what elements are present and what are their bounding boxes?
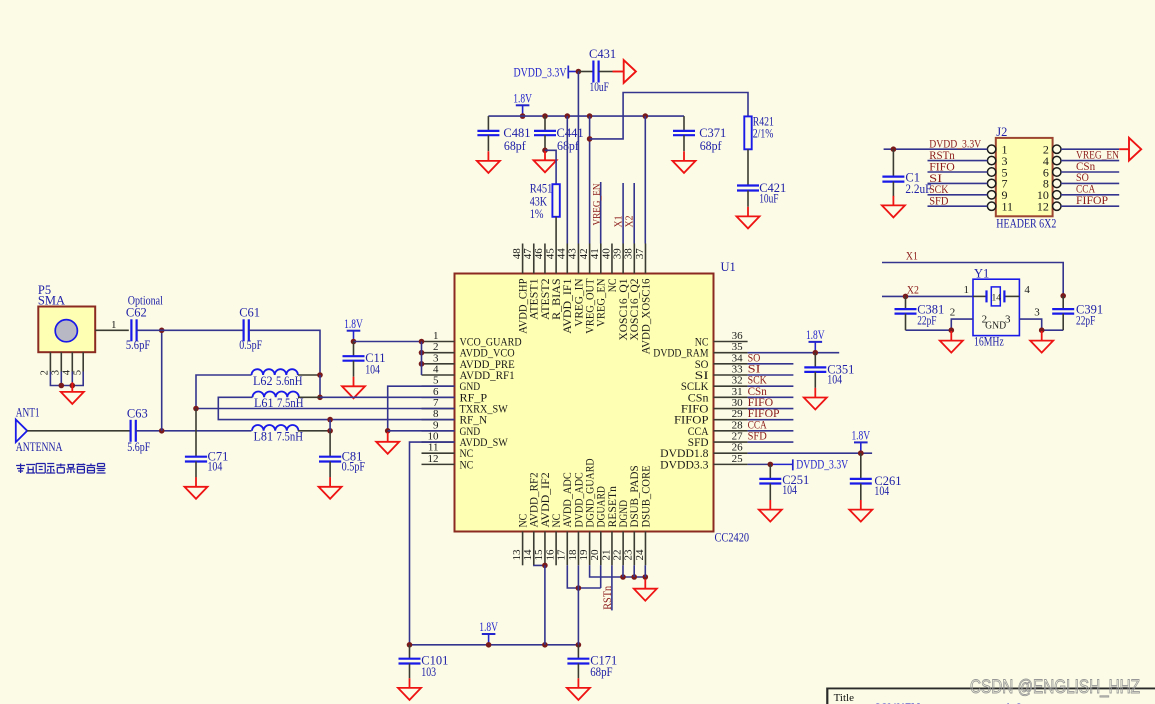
- net label SI: [748, 362, 761, 376]
- net label CSn: [748, 384, 767, 398]
- node Y1 pin3 gnd: [1039, 327, 1045, 333]
- net label RSTn (vertical): [602, 586, 614, 610]
- net label SO (J2 right): [1076, 170, 1089, 184]
- wire C441 node to R451: [545, 150, 556, 184]
- node C1: [891, 146, 897, 152]
- svg-text:FIFOP: FIFOP: [1076, 193, 1108, 207]
- pin 1 (J2): [928, 143, 1008, 157]
- wire net SO (pin 34): [748, 363, 794, 365]
- node DVDD_3.3V junction: [576, 69, 582, 75]
- wire pin21 RSTn: [611, 565, 613, 610]
- net label X1 (vertical): [614, 216, 625, 228]
- wire net FIFOP (pin 29): [748, 419, 794, 421]
- svg-text:C481: C481: [503, 126, 530, 140]
- pin 2 AVDD_VCO (left): [422, 341, 515, 360]
- pin 7 TXRX_SW (left): [422, 397, 509, 416]
- pin 17 AVDD_ADC (bottom): [556, 472, 575, 565]
- pin 3 (P5): [51, 352, 62, 375]
- node pin2: [419, 350, 425, 356]
- pin 34 SO (right): [695, 352, 748, 371]
- watermark CSDN @ENGLISH_HHZ: [970, 677, 1140, 698]
- wire pin38 net X2: [633, 183, 635, 244]
- node X2-C381: [903, 294, 909, 300]
- pin 23 DSUB_PADS (bottom): [623, 465, 642, 565]
- pin 4 (P5): [62, 352, 73, 375]
- node pin23 dgnd: [631, 574, 637, 580]
- svg-text:Y1: Y1: [974, 267, 989, 281]
- wire pin14 tie: [534, 564, 545, 566]
- svg-text:4: 4: [62, 369, 73, 375]
- wire pin20 drop: [600, 565, 602, 588]
- svg-text:HEADER 6X2: HEADER 6X2: [996, 217, 1056, 231]
- svg-text:1.8V: 1.8V: [851, 429, 870, 443]
- capacitor C63 5.6pF: [127, 407, 150, 454]
- node rail-pin42: [587, 113, 593, 119]
- wire AVDD_SW run (pin10): [410, 442, 455, 645]
- svg-text:X1: X1: [614, 216, 625, 228]
- pin 27 SFD (right): [688, 431, 748, 450]
- wire L81 right: [298, 430, 330, 432]
- wire VREG_OUT to R421 feed: [590, 93, 748, 139]
- pin 2 (P5): [40, 352, 51, 375]
- svg-text:0.5pF: 0.5pF: [342, 460, 366, 474]
- svg-text:CSDN @ENGLISH_HHZ: CSDN @ENGLISH_HHZ: [970, 677, 1140, 698]
- svg-text:VREG_EN: VREG_EN: [591, 183, 603, 225]
- svg-text:1: 1: [964, 284, 970, 296]
- wire L62 right: [298, 374, 320, 376]
- pin 37 AVDD_XOSC16 (top): [634, 244, 653, 355]
- svg-text:24: 24: [634, 549, 646, 561]
- net label FIFO: [748, 395, 774, 409]
- resistor R421 2/1%: [744, 115, 774, 150]
- power symbol 1.8V (DVDD_RAM): [806, 328, 825, 355]
- wire pin37 to rail: [644, 116, 646, 243]
- wire DVDD_3.3V to C1: [884, 148, 928, 150]
- wire net X1: [882, 263, 1063, 296]
- svg-text:CC2420: CC2420: [715, 531, 750, 545]
- pin 24 DSUB_CORE (bottom): [634, 465, 653, 565]
- pin 38 XOSC16_Q2 (top): [623, 244, 642, 341]
- wire net CSn (pin 31): [748, 396, 794, 398]
- node pin25 C251: [768, 462, 774, 468]
- node VREG_OUT tap: [587, 136, 593, 142]
- net label SO: [748, 350, 761, 364]
- node P5 gnd a: [59, 383, 65, 389]
- svg-text:SFD: SFD: [748, 429, 767, 443]
- pin 35 DVDD_RAM (right): [653, 341, 747, 360]
- wire net FIFO (pin 30): [748, 408, 794, 410]
- pin 9 (J2): [928, 188, 1008, 202]
- wire TXRX_SW to pin7: [196, 408, 455, 410]
- pin 5 GND (left): [422, 375, 481, 394]
- ground (C11): [342, 377, 365, 399]
- svg-text:10uF: 10uF: [759, 192, 778, 206]
- node X1-C391: [1060, 293, 1066, 299]
- capacitor C251 104: [759, 464, 809, 500]
- net label SCK: [748, 373, 767, 387]
- svg-text:C62: C62: [126, 305, 147, 319]
- node C441-gnd-R451: [542, 148, 548, 154]
- ground (digital pins 22-24): [634, 579, 657, 601]
- net label FIFOP: [748, 406, 780, 420]
- node GND pin9: [385, 428, 391, 434]
- pin 10 (J2): [1037, 188, 1119, 202]
- inductor L81 7.5nH: [252, 425, 303, 444]
- power arrow (VREG_EN): [1119, 138, 1141, 161]
- node RF_P junction: [317, 395, 323, 401]
- pin 12 (J2): [1037, 200, 1119, 214]
- svg-text:5: 5: [73, 370, 84, 375]
- node RF_N junction: [327, 417, 333, 423]
- pin 7 (J2): [928, 177, 1008, 191]
- ground (C171): [567, 678, 590, 700]
- node pin17-18: [576, 585, 582, 591]
- pin 19 DGND_GUARD (bottom): [578, 459, 597, 566]
- svg-text:ANT1: ANT1: [16, 406, 40, 420]
- pin 11 NC (left): [422, 442, 474, 461]
- pin 26 DVDD1.8 (right): [660, 442, 747, 461]
- pin 4 AVDD_RF1 (left): [422, 364, 515, 383]
- wire RF_P to pin6: [320, 396, 455, 398]
- node rail-C171: [576, 642, 582, 648]
- wire pin23 drop: [633, 565, 635, 577]
- pin 29 FIFOP (right): [674, 408, 748, 427]
- node pin1: [419, 339, 425, 345]
- svg-text:SFD: SFD: [929, 194, 948, 208]
- pin 10 AVDD_SW (left): [422, 431, 509, 450]
- node TXRX junction: [193, 406, 199, 412]
- net label SCK (J2 left): [929, 182, 948, 196]
- wire pin19 to dgnd: [590, 565, 646, 577]
- net label CCA (J2 right): [1076, 182, 1095, 196]
- ground (C251): [759, 500, 782, 522]
- pin 8 (J2): [1043, 177, 1119, 191]
- wire GND pins 5-9: [388, 386, 455, 431]
- svg-text:0.5pF: 0.5pF: [239, 338, 262, 352]
- wire net SCK (pin 32): [748, 385, 794, 387]
- wire pins1-4 tie: [421, 342, 423, 376]
- svg-text:SMA: SMA: [38, 294, 65, 308]
- wire L61 right: [298, 396, 320, 398]
- pin 4 (J2): [1043, 154, 1119, 168]
- pin 48 AVDD_CHP (top): [511, 244, 530, 334]
- capacitor C11 104: [343, 342, 386, 377]
- capacitor C441 68pf: [534, 116, 584, 153]
- wire pin25 DVDD_3.3V: [748, 463, 793, 465]
- resistor R451 43K 1%: [530, 182, 560, 222]
- svg-text:U1: U1: [721, 260, 736, 274]
- capacitor C391 22pF: [1052, 296, 1103, 330]
- inductor L61 7.5nH: [253, 391, 304, 410]
- net label X2: [907, 283, 919, 297]
- wire C62 bottom vertical: [161, 330, 163, 431]
- pin 13 NC (bottom): [511, 514, 530, 566]
- ground (P5): [61, 382, 84, 404]
- wire pin26 1.8V: [748, 452, 873, 454]
- pin 22 DGND (bottom): [611, 500, 630, 565]
- svg-text:1%: 1%: [530, 207, 544, 221]
- power symbol 1.8V (top rail): [513, 92, 532, 119]
- node rail-pin37: [643, 113, 649, 119]
- svg-text:1.8V: 1.8V: [513, 92, 532, 106]
- node rail-C101: [407, 642, 413, 648]
- capacitor C61 0.5pF: [239, 305, 262, 352]
- pin 47 ATEST1 (top): [522, 244, 541, 320]
- pin 11 (J2): [928, 200, 1014, 214]
- svg-text:68pF: 68pF: [590, 665, 612, 679]
- ground (C371): [673, 151, 696, 173]
- pin 41 VREG_EN (top): [589, 244, 608, 327]
- IC U1 CC2420 body: [455, 274, 714, 532]
- wire VREG_IN vertical (pin43 to DVDD): [577, 72, 579, 244]
- pin 8 RF_N (left): [422, 408, 488, 427]
- pin 42 VREG_OUT (top): [578, 244, 597, 334]
- ground (C441): [534, 151, 557, 173]
- wire C81 drop: [329, 431, 331, 456]
- wire pin35 1.8V: [748, 352, 840, 354]
- svg-text:22pF: 22pF: [917, 314, 936, 328]
- svg-text:L62: L62: [253, 374, 273, 388]
- svg-text:1.8V: 1.8V: [344, 317, 363, 331]
- capacitor C421 10uF: [737, 181, 786, 207]
- pin 45 R_BIAS (top): [544, 244, 563, 320]
- capacitor C481 68pf: [477, 116, 530, 153]
- svg-text:C441: C441: [557, 126, 584, 140]
- wire DVDD to C431: [578, 71, 593, 73]
- power port DVDD_3.3V (pin25): [793, 458, 848, 472]
- svg-text:NC: NC: [460, 459, 474, 471]
- svg-text:L81: L81: [254, 430, 274, 444]
- net label SFD (J2 left): [929, 194, 948, 208]
- svg-text:X2: X2: [907, 283, 919, 297]
- node L62-C61: [317, 372, 323, 378]
- ground (C421): [737, 207, 760, 229]
- net label X1: [906, 249, 918, 263]
- svg-text:1.8V: 1.8V: [806, 328, 825, 342]
- wire 1.8V rail: [488, 115, 684, 117]
- svg-text:RSTn: RSTn: [602, 586, 614, 610]
- svg-text:5.6pF: 5.6pF: [127, 440, 150, 454]
- wire Y1 pin3 path: [1019, 319, 1063, 330]
- pin 3 AVDD_PRE (left): [422, 352, 515, 371]
- wire net SI (pin 33): [748, 374, 794, 376]
- pin 14 AVDD_RF2 (bottom): [522, 472, 541, 565]
- pin 20 DGUARD (bottom): [589, 486, 608, 565]
- node pin3: [419, 361, 425, 367]
- pin 28 CCA (right): [688, 419, 748, 438]
- node Y1 pin2 gnd: [949, 327, 955, 333]
- title block document name (clipped): [874, 702, 1023, 704]
- svg-text:DVDD_3.3V: DVDD_3.3V: [796, 458, 848, 472]
- title block border: [827, 688, 1155, 704]
- svg-text:DVDD3.3: DVDD3.3: [660, 459, 709, 471]
- pin 6 RF_P (left): [422, 386, 488, 405]
- title block Title text: [834, 692, 855, 704]
- ground (C481): [477, 151, 500, 173]
- svg-text:12: 12: [1037, 200, 1049, 214]
- svg-text:Title: Title: [834, 692, 855, 704]
- svg-text:2: 2: [950, 307, 956, 319]
- node rail-C441: [542, 113, 548, 119]
- wire rail corner to C371: [683, 116, 685, 131]
- pin 12 NC (left): [422, 453, 474, 472]
- wire TXRX corner to L62: [196, 375, 252, 409]
- capacitor C1 2.2uF: [882, 149, 931, 196]
- svg-text:5.6nH: 5.6nH: [276, 374, 303, 388]
- wire TXRX to C71: [195, 409, 197, 457]
- node pin24 dgnd: [643, 574, 649, 580]
- capacitor C431 10uF: [589, 47, 616, 94]
- svg-text:104: 104: [827, 373, 842, 387]
- node P5 gnd b: [70, 383, 76, 389]
- pin 18 DVDD_ADC (bottom): [567, 472, 586, 565]
- pin 30 FIFO (right): [681, 397, 748, 416]
- svg-text:GND: GND: [985, 320, 1006, 332]
- capacitor C261 104: [850, 450, 902, 500]
- capacitor C381 22pF: [895, 296, 945, 330]
- wire pin17 tie: [567, 565, 600, 588]
- net label SFD: [748, 429, 767, 443]
- capacitor C71 104: [185, 449, 228, 477]
- net label DVDD_3.3V (J2 left): [929, 137, 981, 151]
- wire P5 ground tie: [50, 372, 83, 386]
- svg-text:103: 103: [421, 665, 436, 679]
- pin 15 AVDD_IF2 (bottom): [533, 472, 552, 565]
- wire Y1 pin2 path: [906, 319, 974, 330]
- net label VREG_EN (J2 right): [1076, 147, 1119, 161]
- svg-text:22pF: 22pF: [1076, 314, 1095, 328]
- svg-text:104: 104: [208, 459, 223, 473]
- net label VREG_EN (vertical): [591, 183, 603, 225]
- pin 5 (P5): [73, 352, 84, 375]
- svg-text:2: 2: [40, 370, 51, 375]
- wire C61 to RF_P riser: [249, 330, 320, 375]
- svg-text:68pf: 68pf: [504, 139, 527, 153]
- wire C62 to C61: [137, 329, 244, 331]
- pin 9 GND (left): [422, 419, 481, 438]
- pin 5 (J2): [928, 165, 1008, 179]
- capacitor C371 68pf: [673, 126, 726, 153]
- IC U1 reference designator: [721, 260, 736, 274]
- pin 46 ATEST2 (top): [533, 244, 552, 320]
- pin 40 NC (top): [600, 244, 619, 293]
- wire net X2: [882, 295, 973, 297]
- wire net SFD (pin 27): [748, 441, 794, 443]
- svg-text:16MHz: 16MHz: [974, 335, 1004, 349]
- pin 43 VREG_IN (top): [567, 244, 586, 327]
- connector P5 SMA body: [38, 283, 95, 352]
- pin 39 XOSC16_Q1 (top): [611, 244, 630, 341]
- svg-text:3: 3: [1034, 307, 1040, 319]
- svg-text:3: 3: [51, 370, 62, 375]
- svg-text:R451: R451: [530, 182, 553, 196]
- svg-text:ANTENNA: ANTENNA: [16, 440, 63, 454]
- crystal Y1 16MHz: [950, 267, 1041, 349]
- wire pin22 drop: [622, 565, 624, 577]
- pin 33 SI (right): [695, 364, 748, 383]
- annotation Chinese text (no ground plane near antenna): [16, 464, 105, 474]
- svg-text:11: 11: [1002, 200, 1014, 214]
- capacitor C101 103: [399, 645, 449, 679]
- pin 6 (J2): [1043, 165, 1119, 179]
- svg-text:104: 104: [874, 484, 889, 498]
- wire L81 to RF_N: [329, 420, 331, 431]
- net label FIFO (J2 left): [929, 159, 955, 173]
- wire pin41 net VREG_EN: [600, 182, 602, 244]
- svg-text:12: 12: [428, 453, 439, 465]
- wire net CCA (pin 28): [748, 430, 794, 432]
- svg-text:X2: X2: [625, 216, 636, 228]
- svg-text:X1: X1: [906, 249, 918, 263]
- pin 36 NC (right): [695, 330, 748, 349]
- wire ANT1 to C63: [27, 430, 130, 432]
- wire P5 to C62: [128, 329, 130, 331]
- svg-text:C61: C61: [239, 305, 260, 319]
- pin 32 SCLK (right): [681, 375, 748, 394]
- antenna ANT1: [16, 406, 63, 454]
- net label FIFOP (J2 right): [1076, 193, 1108, 207]
- ground (Y1 pin2): [940, 331, 963, 353]
- svg-text:10uF: 10uF: [590, 80, 609, 94]
- net label CSn (J2 right): [1076, 159, 1095, 173]
- power arrow (DVDD_3.3V): [613, 60, 636, 83]
- wire bottom 1.8V rail: [410, 644, 579, 646]
- svg-text:25: 25: [732, 453, 744, 465]
- capacitor C81 0.5pF: [319, 449, 365, 477]
- ground (C71): [185, 477, 208, 499]
- svg-text:68pf: 68pf: [700, 139, 723, 153]
- wire R421 to C421: [747, 149, 749, 185]
- wire pin18 drop: [577, 565, 579, 645]
- svg-text:14: 14: [992, 293, 1002, 303]
- ground (Y1 pin3): [1030, 331, 1053, 353]
- svg-text:4: 4: [1024, 284, 1030, 296]
- pin 2 (J2): [1043, 143, 1119, 157]
- svg-text:1: 1: [111, 319, 117, 331]
- capacitor C351 104: [804, 353, 855, 410]
- ground (pins 5/9): [376, 432, 399, 454]
- svg-text:5.6pF: 5.6pF: [126, 338, 150, 352]
- wire L61 left leg: [218, 397, 454, 419]
- pin 1 VCO_GUARD (left): [422, 330, 522, 349]
- svg-text:104: 104: [782, 483, 797, 497]
- svg-text:1.8V: 1.8V: [479, 620, 498, 634]
- pin 44 AVDD_IF1 (top): [556, 244, 575, 334]
- node C62-C61 junction: [159, 328, 165, 334]
- wire pin9 GND: [388, 430, 455, 432]
- inductor L62 5.6nH: [252, 369, 303, 388]
- pin 16 NC (bottom): [544, 514, 563, 566]
- wire 1.8V to pin1: [354, 341, 422, 343]
- node L81-C81 junction: [327, 428, 333, 434]
- ground (C351): [0, 0, 1, 1]
- svg-text:37: 37: [634, 248, 646, 260]
- power symbol 1.8V (bottom): [479, 620, 498, 647]
- wire riser C61/L62 to RF_P: [319, 375, 321, 397]
- wire pin15 drop: [544, 565, 546, 645]
- net label CCA: [748, 417, 767, 431]
- node pin14-15: [542, 563, 548, 569]
- net label RSTn (J2 left): [929, 148, 955, 162]
- svg-text:2.2uF: 2.2uF: [905, 182, 931, 196]
- connector J2 body: [996, 125, 1057, 230]
- svg-text:68pf: 68pf: [557, 139, 580, 153]
- pin 31 CSn (right): [688, 386, 748, 405]
- wire pin42 to rail: [589, 116, 591, 243]
- wire C63 to L81: [136, 430, 252, 432]
- node pin22 dgnd: [620, 574, 626, 580]
- wire R451 to pin45: [555, 217, 557, 244]
